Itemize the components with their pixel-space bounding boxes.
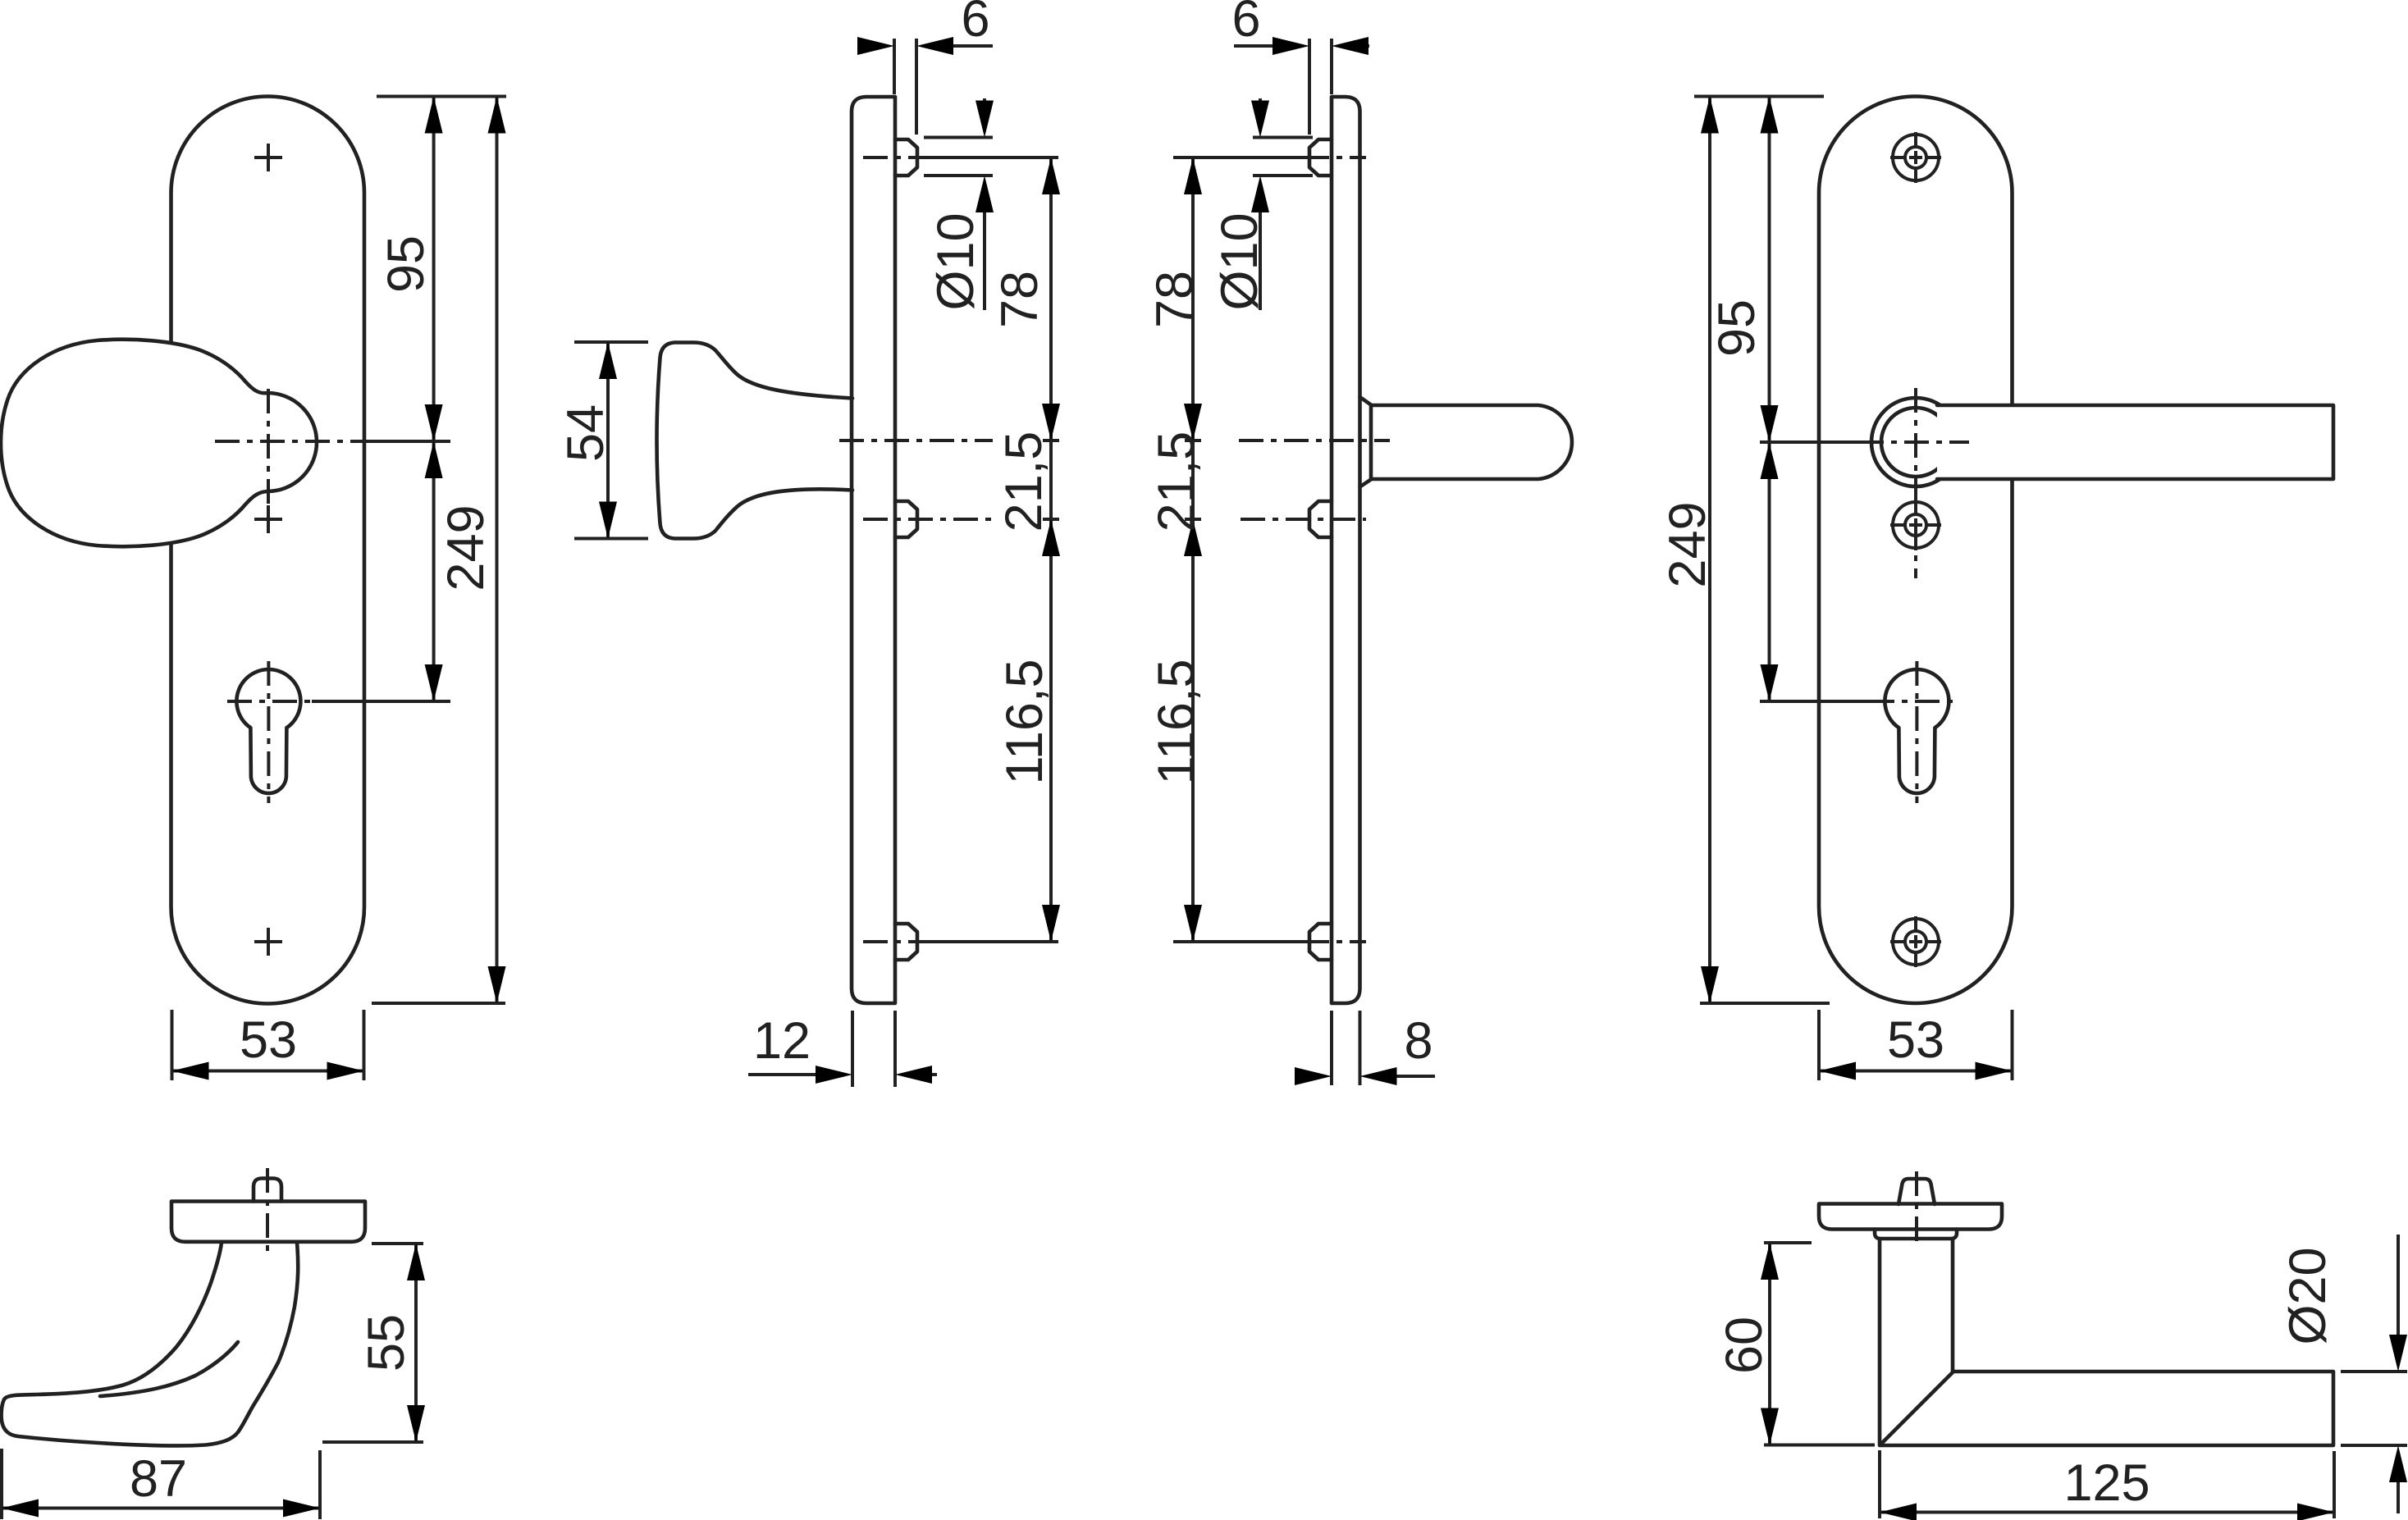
lever spindle xyxy=(1899,1179,1935,1204)
svg-text:6: 6 xyxy=(961,0,989,48)
lever grip bar xyxy=(1937,405,2333,479)
screw top centerlines xyxy=(1890,132,1941,183)
lever rose outer circle xyxy=(1871,398,1960,486)
dimension line 54 xyxy=(606,342,610,539)
plate thickness extension lines 8 xyxy=(1332,1011,1360,1085)
screw boss middle xyxy=(895,501,917,537)
bottom boss extension line xyxy=(924,940,1058,943)
dimension line 87 xyxy=(2,1507,320,1510)
top boss centerline xyxy=(1305,156,1366,159)
knob grip outline xyxy=(2,1243,299,1445)
screw boss bottom xyxy=(895,924,917,960)
width extension lines 53 xyxy=(172,1010,364,1080)
lever flange xyxy=(1819,1204,2002,1230)
dimension line diameter 10 xyxy=(1259,98,1262,310)
top boss extension line xyxy=(1173,156,1305,159)
bottom extension line xyxy=(1700,1002,1830,1005)
dimension line 8 xyxy=(1397,1075,1436,1078)
bottom boss centerline xyxy=(863,940,924,943)
height extension lines 55 xyxy=(322,1244,423,1442)
middle boss tick on dim line xyxy=(1185,518,1201,521)
handle center tick on dim line xyxy=(1185,439,1201,442)
dimension line 53 xyxy=(172,1070,364,1073)
dimension line 60 xyxy=(1768,1243,1771,1445)
rose extension line horizontal xyxy=(1760,440,1859,444)
lever neck xyxy=(1360,397,1372,487)
svg-text:54: 54 xyxy=(557,404,615,462)
boss diameter extension lines xyxy=(924,138,993,176)
rose centerline vertical xyxy=(1914,388,1917,578)
screw bottom inner circle xyxy=(1905,931,1926,952)
svg-text:60: 60 xyxy=(1716,1317,1773,1374)
knob centerline horizontal xyxy=(839,439,993,442)
cylinder extension line xyxy=(312,700,450,703)
screw boss top xyxy=(1309,139,1332,176)
svg-text:249: 249 xyxy=(437,504,495,591)
svg-text:21,5: 21,5 xyxy=(1148,431,1205,532)
thickness extension lines 6 xyxy=(894,39,916,135)
screw top inner circle xyxy=(1905,147,1926,168)
top extension line xyxy=(1694,95,1824,98)
svg-text:12: 12 xyxy=(753,1012,811,1070)
top boss centerline xyxy=(863,156,924,159)
svg-text:Ø10: Ø10 xyxy=(1211,212,1268,310)
knob centerline vertical xyxy=(267,389,270,504)
length extension lines 87 xyxy=(2,1449,320,1519)
svg-text:53: 53 xyxy=(1887,1011,1944,1069)
thickness extension lines 6 xyxy=(1309,39,1332,135)
dimension line 95/72 xyxy=(432,97,436,702)
cylinder keyhole (europrofile) xyxy=(1885,669,1949,793)
dimension line 249 xyxy=(496,97,499,1004)
width extension lines 53 xyxy=(1819,1010,2013,1080)
bottom boss centerline xyxy=(1305,940,1366,943)
screw bottom centerlines xyxy=(1890,916,1941,967)
screw boss bottom xyxy=(1309,924,1332,960)
backplate side view mirrored xyxy=(1332,97,1360,1003)
cylinder keyhole (europrofile) xyxy=(236,669,300,793)
dimension line 78/21,5/116,5 xyxy=(1191,157,1195,942)
lever spindle centerline xyxy=(1915,1171,1918,1244)
dimension line diameter 20 xyxy=(2397,1235,2400,1513)
svg-text:125: 125 xyxy=(2063,1454,2150,1512)
top extension line xyxy=(377,95,506,98)
svg-text:78: 78 xyxy=(1146,271,1204,328)
lever spindle bar with round end xyxy=(1371,405,1572,479)
knob spindle xyxy=(254,1179,281,1202)
length extension lines 125 xyxy=(1880,1450,2334,1518)
knob center extension line xyxy=(373,440,450,443)
dimension line 6 xyxy=(1234,44,1369,48)
knob side profile xyxy=(657,343,853,539)
svg-text:21,5: 21,5 xyxy=(995,431,1053,532)
cylinder centerline vertical xyxy=(267,661,270,803)
svg-text:95: 95 xyxy=(1708,299,1766,357)
screw middle centerlines xyxy=(1890,500,1941,550)
knob grip crease xyxy=(100,1342,238,1396)
bottom extension line xyxy=(372,1002,505,1005)
handle centerline horizontal xyxy=(1239,439,1390,442)
dimension line 12 xyxy=(748,1073,937,1076)
dimension line 53 xyxy=(1819,1070,2013,1073)
screw cross top xyxy=(254,144,282,171)
screw bottom outer circle xyxy=(1893,919,1939,965)
bottom boss extension line xyxy=(1173,940,1305,943)
screw boss top xyxy=(895,139,917,176)
svg-text:87: 87 xyxy=(130,1450,187,1508)
screw cross middle xyxy=(254,505,282,533)
svg-text:78: 78 xyxy=(991,271,1049,328)
screw top outer circle xyxy=(1893,135,1939,180)
svg-text:Ø20: Ø20 xyxy=(2279,1247,2337,1344)
knob centerline horizontal xyxy=(215,440,373,443)
dimension line diameter 10 xyxy=(983,98,986,310)
screw middle inner circle xyxy=(1905,514,1926,536)
backplate front view (stadium) xyxy=(171,97,365,1004)
dimension line 6 xyxy=(857,44,993,48)
svg-text:249: 249 xyxy=(1659,501,1716,587)
grip diameter extension lines 20 xyxy=(2341,1372,2407,1445)
knob height extension lines 54 xyxy=(574,342,648,539)
lever rose inner circle xyxy=(1881,408,1950,477)
dimension line 95/72 xyxy=(1768,97,1771,702)
cylinder extension line xyxy=(1760,700,1870,703)
screw boss middle xyxy=(1309,501,1332,537)
cylinder centerline vertical xyxy=(1915,661,1918,803)
svg-text:Ø10: Ø10 xyxy=(927,212,985,310)
top boss extension line xyxy=(924,156,1058,159)
lever post and grip L-shape xyxy=(1880,1239,2333,1445)
dimension line 78/21,5/116,5 xyxy=(1049,157,1053,942)
svg-text:95: 95 xyxy=(377,235,435,293)
knob spindle centerline xyxy=(266,1168,269,1255)
dimension line 125 xyxy=(1880,1511,2334,1514)
svg-text:8: 8 xyxy=(1404,1012,1432,1070)
screw cross bottom xyxy=(254,928,282,956)
svg-text:116,5: 116,5 xyxy=(996,660,1053,785)
boss diameter extension lines xyxy=(1253,138,1313,176)
plate thickness extension lines 12 xyxy=(852,1011,895,1087)
middle boss centerline xyxy=(1241,518,1366,521)
backplate front view (stadium) xyxy=(1819,97,2013,1004)
rose centerline horizontal xyxy=(1859,440,1969,444)
middle boss tick on dim line xyxy=(1043,518,1059,521)
screw middle outer circle xyxy=(1893,502,1939,548)
knob flange xyxy=(171,1202,365,1242)
middle boss centerline xyxy=(863,518,993,521)
knob front view (pear shaped) xyxy=(1,340,317,546)
cylinder centerline horizontal xyxy=(227,700,312,703)
backplate side view xyxy=(852,97,895,1003)
svg-text:53: 53 xyxy=(240,1011,297,1069)
svg-text:55: 55 xyxy=(358,1314,415,1372)
height extension lines 60 xyxy=(1764,1243,1875,1445)
cylinder centerline horizontal xyxy=(1870,700,1958,703)
dimension line 249 xyxy=(1708,97,1711,1004)
dimension line 55 xyxy=(414,1244,418,1442)
knob center tick on dim line xyxy=(1043,439,1059,442)
svg-text:6: 6 xyxy=(1231,0,1260,48)
lever collar xyxy=(1875,1230,1957,1239)
svg-text:116,5: 116,5 xyxy=(1148,660,1205,785)
